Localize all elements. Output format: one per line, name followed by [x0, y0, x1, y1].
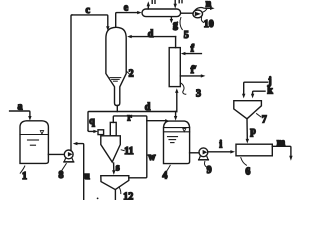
label 9 [204, 162, 211, 177]
label 6 [241, 158, 251, 178]
vessel 12 [101, 176, 129, 190]
line g [170, 17, 178, 31]
line c [72, 5, 110, 31]
wire d down to column 3 top [175, 37, 177, 48]
line q to cyclone inlet [88, 116, 98, 133]
label 2 [126, 69, 133, 80]
svg-text:u: u [84, 171, 90, 182]
line a [10, 102, 32, 121]
label 12 [119, 187, 133, 203]
wire column2 outlet [116, 105, 118, 111]
line w [129, 121, 156, 178]
wire vessel5 to pump10 [181, 12, 193, 14]
label 7 [257, 114, 267, 126]
label 10 [201, 17, 213, 30]
svg-text:s: s [116, 162, 120, 173]
wire tank1 to pump8 [48, 153, 64, 155]
svg-text:6: 6 [245, 166, 250, 177]
svg-text:i: i [219, 139, 222, 150]
line e [116, 3, 142, 27]
line d (return to column 2) [127, 29, 176, 40]
svg-text:w: w [148, 152, 156, 163]
svg-text:12: 12 [123, 192, 133, 200]
svg-text:p: p [250, 126, 256, 137]
pump 10 (blower) [193, 8, 207, 18]
header line q/d from column 2 bottom [88, 102, 177, 131]
svg-text:r: r [127, 112, 132, 123]
svg-text:3: 3 [196, 89, 201, 100]
vent stub left on vessel 5 [147, 0, 155, 9]
vessel 5 [142, 9, 181, 17]
vessel 6 [236, 144, 272, 156]
line f [181, 43, 202, 55]
label 8 [59, 164, 67, 182]
line r [113, 112, 169, 123]
svg-text:8: 8 [59, 170, 64, 181]
cyclone 11 [98, 122, 120, 162]
line i [208, 139, 235, 153]
svg-text:5: 5 [184, 30, 189, 41]
svg-text:g: g [173, 19, 178, 30]
svg-text:10: 10 [204, 19, 214, 30]
line f' [180, 65, 205, 78]
stray mark [97, 198, 99, 200]
line m [272, 137, 292, 160]
label 11 [121, 146, 133, 157]
svg-text:1: 1 [22, 171, 27, 182]
column 3 [169, 48, 180, 87]
line k [251, 86, 273, 99]
svg-text:2: 2 [129, 69, 134, 80]
wire feed to column 3 bottom [175, 88, 178, 111]
tank 1 [20, 121, 48, 164]
svg-text:7: 7 [262, 114, 267, 125]
svg-text:4: 4 [162, 171, 167, 182]
svg-text:11: 11 [124, 146, 133, 157]
line s cyclone to vessel 12 [112, 162, 120, 175]
hopper 7 [234, 101, 262, 119]
svg-text:d: d [148, 29, 154, 40]
wire tank4 to pump9 [190, 152, 199, 154]
line u [73, 142, 90, 200]
line p [246, 119, 257, 144]
column 2 [106, 27, 126, 105]
label 3 [181, 83, 201, 99]
svg-text:9: 9 [207, 165, 212, 176]
line n [206, 0, 215, 10]
vessel 12 outlet [114, 190, 116, 200]
label 4 [162, 165, 170, 181]
line j [242, 76, 272, 99]
wire d branch down into tank 4 [174, 112, 177, 121]
svg-text:f: f [191, 43, 195, 54]
pump 9 [199, 148, 209, 160]
wire riser pump8 to line c [71, 15, 72, 151]
pump 8 [64, 150, 74, 162]
svg-text:k: k [267, 86, 273, 97]
feed stub right on vessel 5 [174, 0, 183, 9]
label 5 [180, 18, 189, 41]
svg-text:f′: f′ [191, 65, 197, 76]
label 1 [20, 166, 27, 182]
svg-text:q: q [89, 116, 95, 127]
tank 4 [164, 121, 190, 164]
